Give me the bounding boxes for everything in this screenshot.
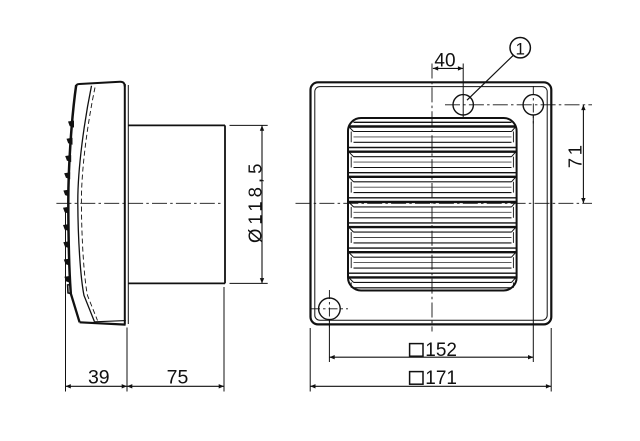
dim 39 line bbox=[66, 384, 128, 388]
dim 152 line bbox=[329, 355, 533, 359]
side view louvre tabs bbox=[63, 121, 74, 283]
dim 171 line bbox=[310, 384, 551, 388]
grille frame bbox=[348, 118, 517, 291]
front view vertical centerline bbox=[431, 64, 433, 332]
svg-text:75: 75 bbox=[167, 367, 189, 389]
screw hole top right bbox=[523, 95, 543, 115]
dim 75 line bbox=[127, 384, 224, 388]
dim 71 line bbox=[581, 105, 585, 204]
svg-text:Ø118,5: Ø118,5 bbox=[244, 160, 265, 243]
duct bbox=[128, 125, 225, 283]
balloon leader bbox=[467, 55, 513, 100]
front view horizontal centerline bbox=[296, 202, 593, 204]
side view hidden edge dashed bbox=[81, 88, 97, 321]
dim 40 extension right bbox=[462, 64, 464, 118]
label 75 bbox=[167, 367, 189, 389]
label diameter 118,5 bbox=[244, 160, 265, 243]
svg-text:71: 71 bbox=[564, 142, 585, 168]
side view top edge bbox=[76, 82, 125, 87]
dim 118.5 line bbox=[260, 125, 264, 283]
side view inner bottom line bbox=[95, 321, 126, 322]
grille louvres bbox=[349, 122, 516, 287]
svg-text:1: 1 bbox=[515, 39, 524, 58]
label 71 bbox=[564, 142, 585, 168]
dim 171 extension lines bbox=[310, 328, 551, 392]
dim 39-75 extension lines bbox=[66, 210, 225, 392]
side view body right edge bbox=[125, 84, 129, 324]
screw hole top middle bbox=[453, 95, 473, 115]
label 171 bbox=[410, 368, 457, 389]
svg-text:152: 152 bbox=[425, 340, 457, 361]
dim 152 extension lines bbox=[329, 116, 533, 363]
side view cover outer edge bbox=[68, 85, 79, 322]
svg-text:171: 171 bbox=[425, 368, 457, 389]
screw hole bottom left bbox=[311, 290, 348, 328]
top right hole vertical centerline bbox=[532, 86, 534, 124]
dim 40 line bbox=[433, 66, 463, 70]
side view bottom edge bbox=[80, 322, 126, 324]
side view centerline bbox=[56, 202, 222, 204]
label 152 bbox=[410, 340, 457, 361]
label 39 bbox=[88, 367, 110, 389]
side view cover inner curve bbox=[78, 86, 95, 322]
label 40 bbox=[434, 51, 455, 72]
svg-text:39: 39 bbox=[88, 367, 110, 389]
balloon 1 bbox=[510, 38, 530, 59]
side view bottom-left step bbox=[68, 285, 72, 294]
screw holes centerline bbox=[445, 104, 592, 106]
front view outer square bbox=[311, 82, 552, 324]
front view inner contour bbox=[315, 87, 547, 321]
dim 118.5 extension lines bbox=[230, 125, 268, 283]
svg-text:40: 40 bbox=[434, 51, 455, 72]
